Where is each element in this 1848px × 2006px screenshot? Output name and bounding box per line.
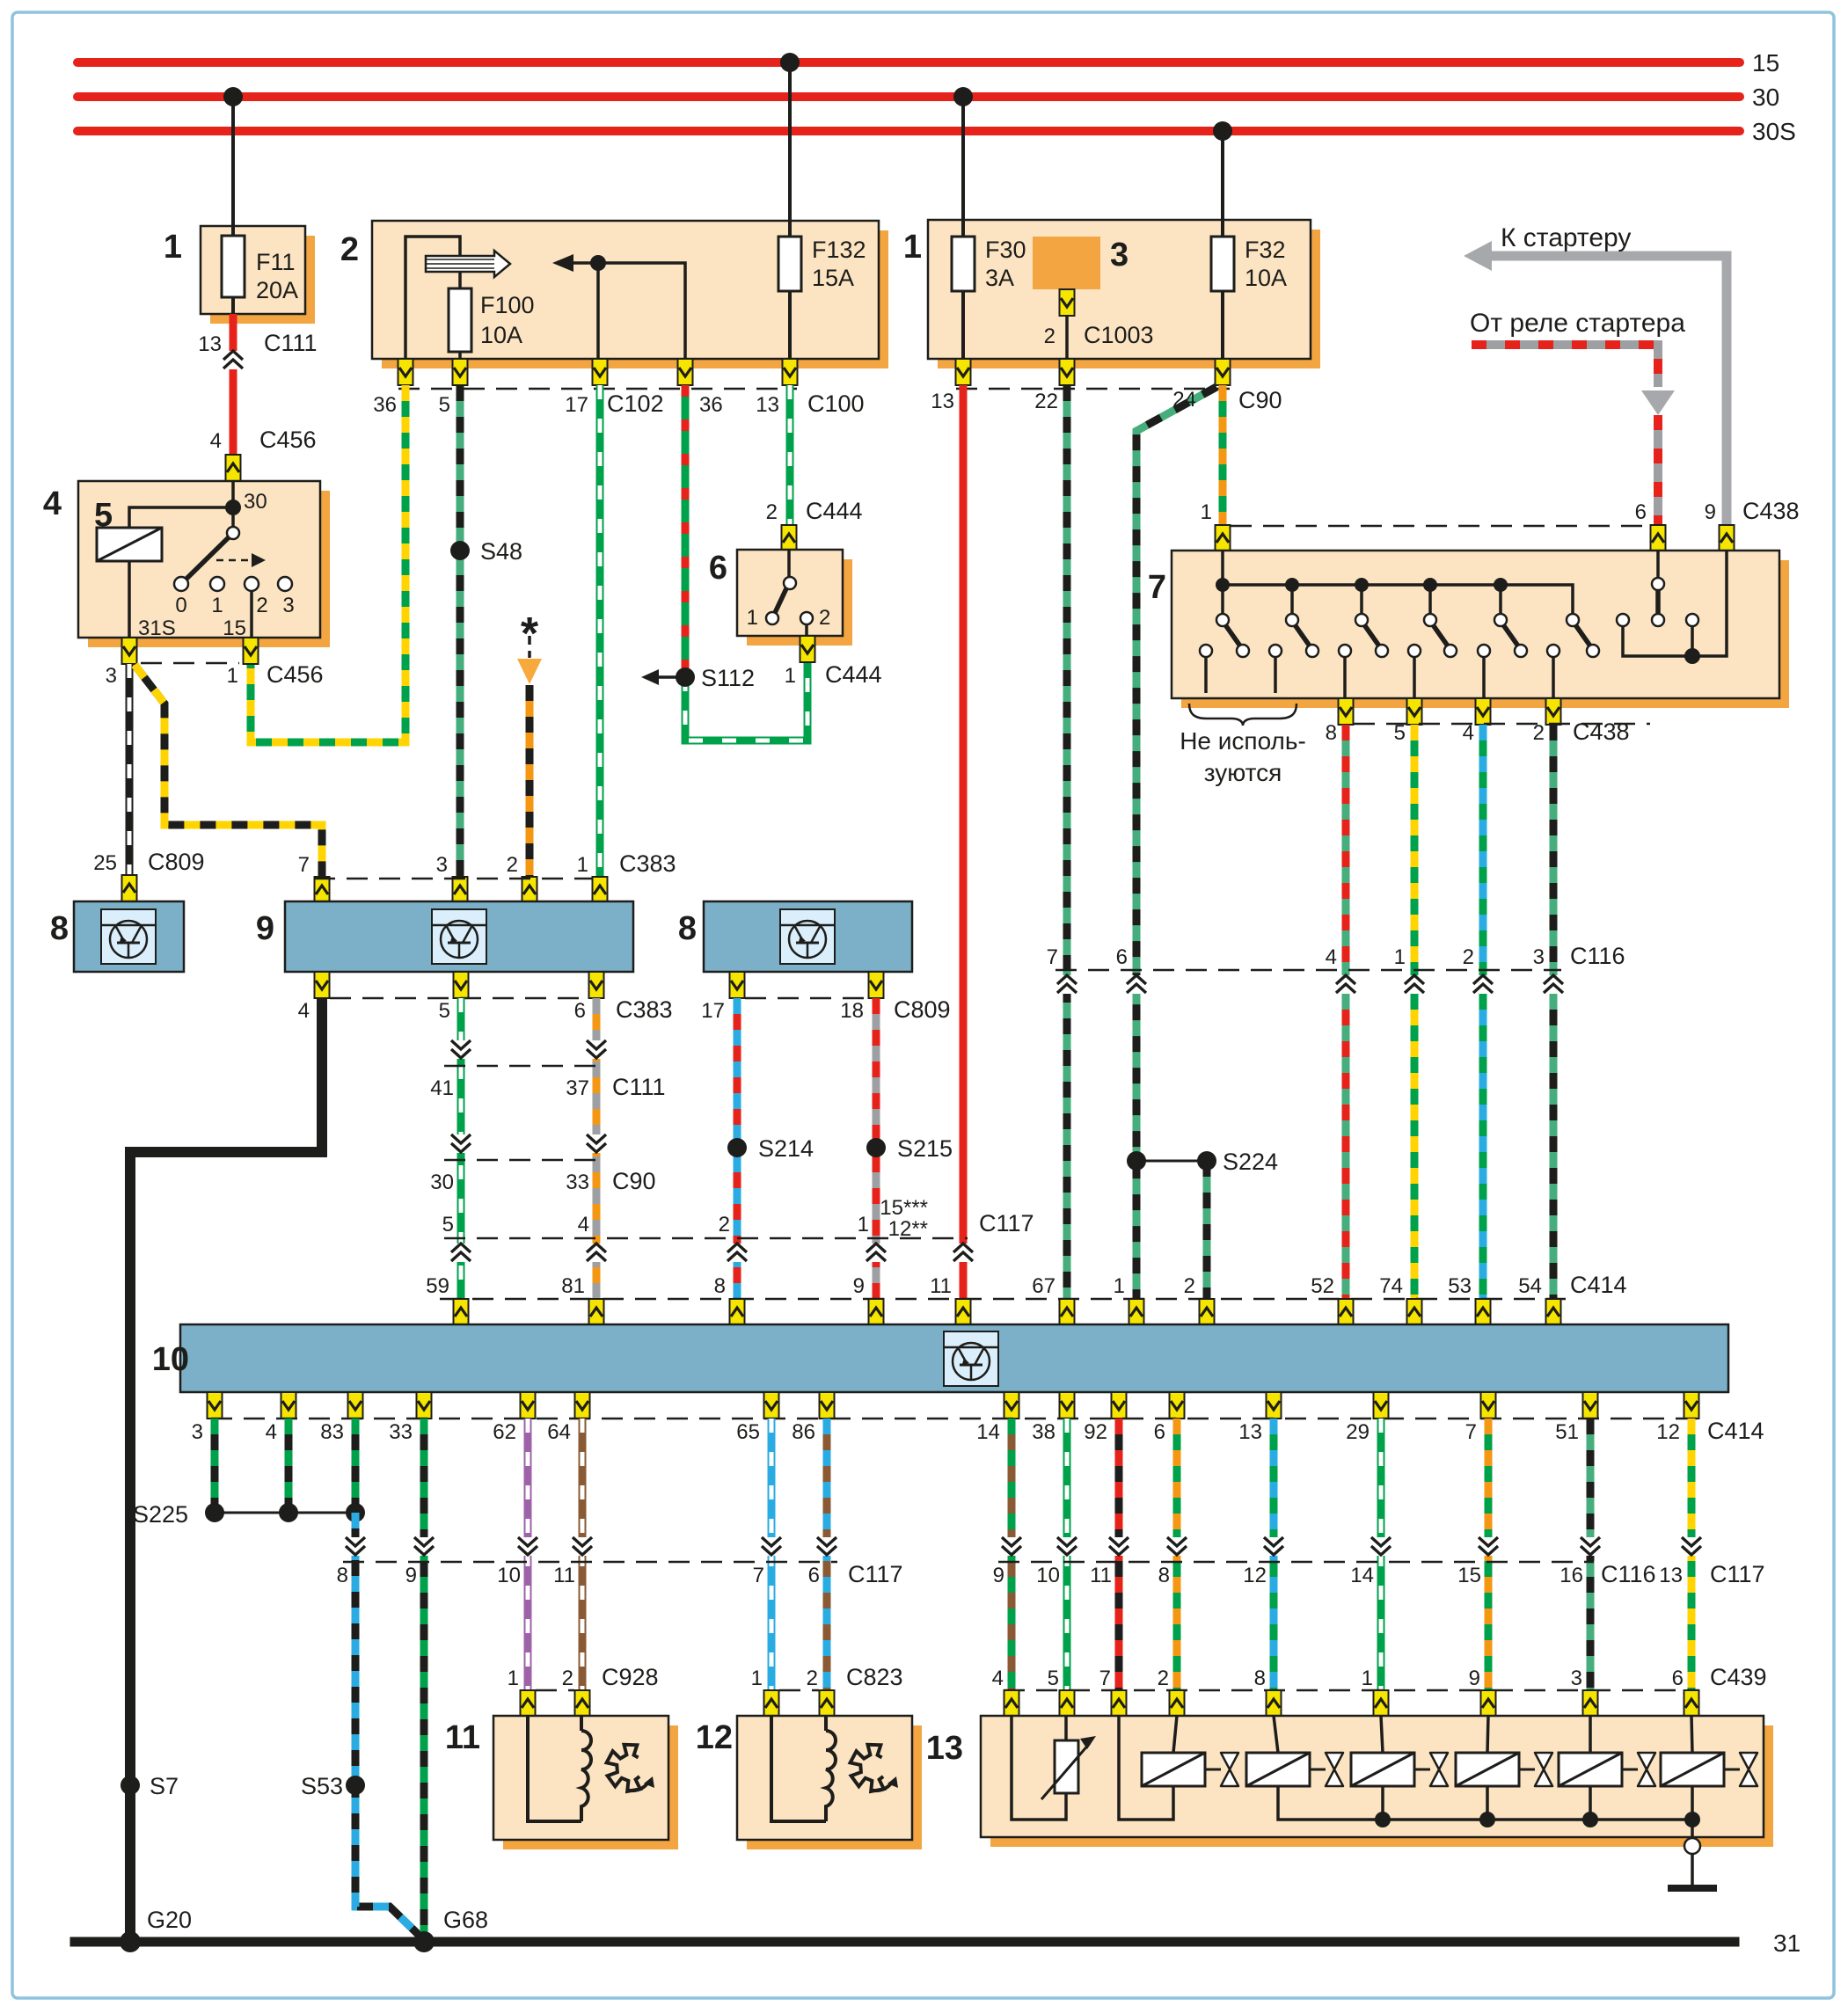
transistor icon box 10	[944, 1331, 998, 1386]
box7 bus junction	[1423, 578, 1437, 592]
box7 switch 6 arm	[1574, 624, 1591, 647]
junction S214	[727, 1138, 747, 1157]
svg-text:8: 8	[1158, 1564, 1170, 1587]
wire C438 pin2 to C414 pin54 (green/black)	[1550, 725, 1558, 1299]
svg-text:62: 62	[493, 1420, 516, 1444]
svg-text:К стартеру: К стартеру	[1501, 223, 1631, 252]
plug arrow symbol in box 2	[426, 251, 510, 277]
bus 30S (red power rail)	[77, 127, 1740, 135]
wire C439 pin7 to valve1 return	[1119, 1716, 1173, 1820]
svg-text:7: 7	[1047, 945, 1058, 969]
svg-text:C444: C444	[806, 498, 863, 524]
svg-text:S214: S214	[758, 1135, 814, 1162]
control unit box 8 (left)	[74, 901, 184, 972]
wire S112 to C444 pin1 (green/white)	[685, 662, 807, 740]
svg-text:18: 18	[840, 999, 864, 1023]
svg-text:13: 13	[931, 390, 954, 413]
connector C1003 pin2	[1060, 289, 1075, 316]
svg-text:52: 52	[1311, 1274, 1334, 1298]
wire to C438 pin6 (grey/red)	[1654, 415, 1662, 525]
connector C414 pin 52	[1339, 1299, 1354, 1325]
svg-text:2: 2	[1533, 721, 1545, 745]
connector C438 pin9	[1720, 525, 1735, 551]
valve line solenoid 1	[1205, 1769, 1221, 1771]
svg-text:4: 4	[266, 1420, 277, 1444]
common return rail box 13	[1278, 1786, 1692, 1820]
transistor icon box 8 right	[780, 909, 835, 964]
connector C809 pin18	[869, 972, 884, 998]
connector line C456 (bottom)	[141, 662, 239, 665]
switch 6 arm	[774, 587, 787, 615]
svg-text:C456: C456	[259, 427, 317, 453]
svg-text:8: 8	[1326, 721, 1337, 745]
connector C438 pin6	[1651, 525, 1666, 551]
wire C809 pin18 to C414 pin9 (grey/red)	[873, 998, 880, 1299]
svg-text:2: 2	[256, 594, 267, 617]
wire C823 pin2 to coil (box12)	[824, 1717, 828, 1731]
connector C414 pin 59	[454, 1299, 469, 1325]
svg-text:17: 17	[565, 393, 588, 417]
svg-text:C383: C383	[616, 996, 673, 1023]
svg-text:3: 3	[1110, 237, 1129, 274]
box7 switch 4 feed	[1428, 585, 1432, 614]
box7 switch 1 arm end	[1237, 645, 1249, 657]
box7 bus junction	[1355, 578, 1369, 592]
box7 switch 2 arm end	[1306, 645, 1318, 657]
svg-text:4: 4	[992, 1667, 1004, 1690]
switch position 2 contact	[245, 577, 259, 591]
junction S7	[121, 1776, 140, 1795]
svg-text:1: 1	[1114, 1274, 1125, 1298]
svg-text:6: 6	[709, 550, 727, 587]
svg-text:3: 3	[282, 594, 294, 617]
wire C90 pin13 to C414 pin11 (red)	[960, 385, 968, 1299]
svg-text:92: 92	[1084, 1420, 1107, 1444]
junction in box 2 (pin17/pin36 branch)	[590, 255, 606, 271]
fuse F132	[778, 237, 801, 291]
connector C414 pin 9	[869, 1299, 884, 1325]
connector C439 pin 8	[1267, 1690, 1282, 1717]
box7 switch 5 output contact	[1478, 645, 1490, 657]
svg-text:C1003: C1003	[1084, 322, 1154, 348]
injector box 12	[737, 1716, 922, 1849]
svg-text:2: 2	[766, 500, 778, 524]
box7 bus junction	[1216, 578, 1230, 592]
wire C414 pin83 to S225 (black/green)	[352, 1419, 360, 1513]
connector line C823	[779, 1689, 819, 1692]
connector C414 pin 12 (bottom)	[1684, 1392, 1699, 1419]
svg-text:3: 3	[106, 664, 117, 688]
wire box2 pin36 to S112 (green/red)	[682, 385, 690, 677]
connector C809 pin25	[122, 875, 137, 901]
junction bus30S/F32 feed	[1213, 121, 1232, 141]
wire C383 pin4 to ground G20 (black)	[130, 998, 322, 1942]
svg-text:2: 2	[1158, 1667, 1169, 1690]
solenoid coil 5	[1559, 1753, 1622, 1786]
connector line C414 (bottom)	[211, 1418, 1699, 1420]
connector C823 pin2	[820, 1690, 835, 1717]
wire C809 pin17 to C414 pin8 (red/blue)	[734, 998, 741, 1299]
wire S224 to C414 pin2 (green/black)	[1203, 1161, 1211, 1299]
svg-text:S53: S53	[301, 1773, 343, 1799]
svg-text:4: 4	[1326, 945, 1337, 969]
box7 switch 1 output stub	[1204, 657, 1208, 693]
svg-text:2: 2	[819, 606, 830, 630]
wire C414 pin51 to C439 pin3 (green/black)	[1587, 1419, 1595, 1690]
crossing C117 at x=838	[727, 1244, 747, 1262]
box7 switch 6 output stub	[1552, 657, 1555, 698]
svg-text:S225: S225	[133, 1501, 188, 1528]
wire C444 pin2 into switch 6	[787, 550, 791, 579]
arrow to starter (grey)	[1464, 241, 1727, 525]
svg-text:11: 11	[930, 1274, 952, 1298]
box7 switch 6 output contact	[1547, 645, 1559, 657]
svg-text:15: 15	[223, 616, 246, 640]
connector C438 pin 5 (bottom)	[1407, 698, 1422, 725]
crossing C111 pin41	[451, 1040, 471, 1059]
box7 switch 3 output contact	[1339, 645, 1351, 657]
svg-text:2: 2	[807, 1667, 818, 1690]
svg-text:8: 8	[714, 1274, 726, 1298]
crossing C117 row2 at x=662	[573, 1537, 592, 1556]
connector C414 pin 67	[1060, 1299, 1075, 1325]
svg-text:4: 4	[1463, 721, 1474, 745]
junction S112	[676, 667, 695, 687]
connector line C102/C100	[398, 388, 797, 390]
fuse F32	[1211, 237, 1234, 291]
wire relay to terminal 30	[129, 507, 233, 528]
wire C414 pin13 to C439 pin8 (green/blue)	[1270, 1419, 1278, 1690]
control unit box 8 (right)	[704, 901, 912, 972]
box7 switch 3 arm end	[1376, 645, 1388, 657]
connector C414 pin 64 (bottom)	[575, 1392, 590, 1419]
svg-text:S48: S48	[480, 538, 522, 565]
connector C414 pin 11	[956, 1299, 971, 1325]
box7 switch 5 output stub	[1482, 657, 1486, 698]
wire relay to 31S terminal	[128, 561, 131, 638]
svg-text:2: 2	[719, 1213, 730, 1236]
switch box 6	[737, 550, 852, 646]
wire C414 pin92 to C439 pin7 (black/red)	[1115, 1419, 1123, 1690]
crossing C117 row2 at x=940	[817, 1537, 836, 1556]
svg-text:51: 51	[1555, 1420, 1579, 1444]
svg-text:8: 8	[50, 910, 69, 947]
internal bus of box 7	[1223, 585, 1573, 614]
wire junction to pin36 internal	[598, 263, 685, 359]
connector C414 pin 54	[1546, 1299, 1561, 1325]
wire C414 pin38 to C439 pin5 (green/white)	[1063, 1419, 1071, 1690]
box7 right switch arm (closed)	[1655, 584, 1661, 620]
svg-text:0: 0	[175, 594, 186, 617]
bus 31 (ground rail)	[75, 1937, 1735, 1947]
valve symbol 4	[1535, 1753, 1552, 1786]
connector C414 pin 62 (bottom)	[521, 1392, 536, 1419]
svg-text:2: 2	[562, 1667, 573, 1690]
wire C438 pin5 to C414 pin74 (green/yellow)	[1411, 725, 1419, 1299]
svg-text:1: 1	[227, 664, 238, 688]
junction S225 dot1	[205, 1503, 224, 1522]
svg-text:C111: C111	[264, 330, 318, 356]
return rail junction	[1582, 1812, 1598, 1827]
box7 switch 2 output stub	[1274, 657, 1277, 693]
junction bus30/F11 feed	[223, 87, 243, 106]
chassis ground symbol	[1668, 1854, 1717, 1888]
splice link S224	[1136, 1160, 1207, 1163]
svg-text:3: 3	[1533, 945, 1545, 969]
connector C414 pin 13 (bottom)	[1267, 1392, 1282, 1419]
connector C823 pin1	[764, 1690, 779, 1717]
svg-text:1: 1	[785, 664, 796, 688]
connector C414 pin 2	[1200, 1299, 1215, 1325]
svg-text:F11: F11	[256, 249, 296, 275]
connector box2 pin 13	[783, 359, 798, 385]
connector C414 pin 4 (bottom)	[281, 1392, 296, 1419]
svg-text:7: 7	[1465, 1420, 1477, 1444]
connector C414 pin 14 (bottom)	[1004, 1392, 1019, 1419]
switch position 1 contact	[210, 577, 224, 591]
connector line C438 (bottom)	[1354, 723, 1650, 726]
svg-text:1: 1	[903, 229, 922, 266]
svg-text:2: 2	[1184, 1274, 1195, 1298]
wire C414 pin7 to C439 pin9 (green/orange)	[1485, 1419, 1493, 1690]
wire C438 pin6 into box7	[1656, 551, 1660, 578]
svg-text:C100: C100	[807, 390, 865, 417]
connector C414 pin 81	[589, 1299, 604, 1325]
connector C439 pin 7	[1112, 1690, 1127, 1717]
svg-text:9: 9	[853, 1274, 865, 1298]
svg-text:12: 12	[1243, 1564, 1267, 1587]
wire C414 pin29 to C439 pin1 (green/white)	[1377, 1419, 1385, 1690]
wire C414 pin12 to C439 pin6 (green/yellow)	[1688, 1419, 1696, 1690]
connector line C439	[1004, 1689, 1699, 1692]
wire to solenoid 3	[1381, 1716, 1383, 1753]
svg-text:C111: C111	[612, 1074, 666, 1100]
connector line C117 (row 1)	[444, 1237, 968, 1240]
box7 switch 4 output contact	[1408, 645, 1421, 657]
crossing C116/C117 row2 at x=1338	[1167, 1537, 1187, 1556]
solenoid coil 6	[1661, 1753, 1724, 1786]
svg-text:30: 30	[430, 1171, 454, 1194]
svg-text:C117: C117	[979, 1210, 1034, 1236]
valve symbol 6	[1740, 1753, 1757, 1786]
svg-text:30: 30	[244, 490, 267, 514]
valve line solenoid 5	[1622, 1769, 1638, 1771]
coil of injector 12	[826, 1731, 836, 1821]
solenoid coil 2	[1246, 1753, 1310, 1786]
control unit box 9	[285, 901, 633, 972]
brace for unused contacts	[1189, 704, 1297, 726]
wire to solenoid 2	[1274, 1716, 1278, 1753]
crossing C117 at x=996	[866, 1244, 886, 1262]
connector C383 pin 6 (bottom)	[589, 972, 604, 998]
svg-text:C90: C90	[612, 1168, 656, 1194]
box7 right contact A	[1617, 614, 1629, 626]
box7 switch 3 feed	[1360, 585, 1363, 614]
svg-text:64: 64	[547, 1420, 571, 1444]
transistor icon box 8 left	[101, 909, 156, 964]
svg-text:67: 67	[1032, 1274, 1055, 1298]
arrowhead from starter relay	[1641, 390, 1675, 415]
switch position 3 contact	[278, 577, 292, 591]
wire C1003 to box edge	[1065, 316, 1069, 359]
valve symbol 3	[1430, 1753, 1448, 1786]
svg-text:3: 3	[192, 1420, 203, 1444]
connector line C90 (crossing)	[444, 1159, 607, 1162]
svg-text:C116: C116	[1570, 943, 1625, 969]
svg-text:33: 33	[389, 1420, 413, 1444]
box7 bus junction	[1494, 578, 1508, 592]
connector line C414 (top)	[440, 1298, 1566, 1301]
svg-text:4: 4	[43, 485, 62, 522]
box7 switch 4 output stub	[1413, 657, 1416, 698]
junction S48	[450, 541, 470, 560]
crossing C111 pin37	[587, 1040, 606, 1059]
svg-text:G68: G68	[443, 1907, 488, 1933]
connector C456 pin3	[122, 638, 137, 664]
svg-text:9: 9	[1705, 500, 1716, 524]
svg-text:C117: C117	[848, 1561, 903, 1587]
box7 switch 3 pivot	[1355, 614, 1368, 626]
svg-text:1: 1	[577, 853, 588, 877]
svg-text:12: 12	[1656, 1420, 1680, 1444]
wire C928 pin1 to coil (box11)	[528, 1717, 581, 1821]
ignition switch box 4	[78, 481, 330, 647]
box7 switch 2 pivot	[1286, 614, 1298, 626]
connector line C383 (top)	[314, 878, 592, 880]
ground connector contact	[1684, 1838, 1700, 1854]
svg-text:S215: S215	[897, 1135, 953, 1162]
continuation arrow at S112	[641, 669, 680, 685]
wire from starter relay (grey/red)	[1472, 345, 1658, 387]
connector crossing C116 at x=1292	[1127, 975, 1146, 994]
connector line C90	[956, 388, 1230, 390]
box7 switch 5 arm	[1502, 624, 1519, 647]
svg-text:2: 2	[1463, 945, 1474, 969]
rail to ground stub	[1691, 1820, 1694, 1837]
connector line C116 (row 2)	[998, 1561, 1594, 1564]
svg-text:C809: C809	[148, 849, 205, 875]
svg-text:10A: 10A	[480, 322, 522, 348]
solenoid coil 1	[1142, 1753, 1205, 1786]
svg-text:7: 7	[1099, 1667, 1111, 1690]
gear icon box 12	[851, 1745, 898, 1791]
connector C414 pin 86 (bottom)	[820, 1392, 835, 1419]
wire F11 to C456 pin4 (red)	[230, 314, 237, 456]
svg-text:C809: C809	[894, 996, 951, 1023]
svg-text:9: 9	[993, 1564, 1004, 1587]
solenoid coil 3	[1351, 1753, 1414, 1786]
wire C439 pin4 to resistor	[1012, 1716, 1066, 1820]
connector C90 pin 13	[956, 359, 971, 385]
svg-text:11: 11	[445, 1719, 480, 1756]
wire C90 pin22 to C414 pin67 (green/black)	[1063, 385, 1071, 1299]
svg-text:7: 7	[1148, 569, 1166, 606]
connector C456 pin1	[244, 638, 259, 664]
junction S215	[866, 1138, 886, 1157]
wire C414 pin86 to C823 pin2 (brown/blue)	[823, 1419, 831, 1690]
svg-text:9: 9	[256, 910, 274, 947]
wire contact2 to C444 pin1	[805, 624, 808, 636]
box7 right switch top contact	[1652, 578, 1664, 590]
connector crossing C111 pin13	[223, 351, 243, 369]
svg-text:4: 4	[578, 1213, 589, 1236]
wire through fuse F11	[231, 226, 235, 314]
svg-text:15: 15	[1457, 1564, 1481, 1587]
svg-text:F30: F30	[985, 237, 1026, 263]
svg-text:59: 59	[426, 1274, 449, 1298]
svg-text:C438: C438	[1573, 719, 1630, 745]
wire bus15 to box2 F132	[788, 62, 792, 221]
connector C414 pin 7 (bottom)	[1481, 1392, 1496, 1419]
svg-text:1: 1	[211, 594, 223, 617]
crossing C117 row2 at x=877	[762, 1537, 781, 1556]
ground junction G20	[120, 1931, 141, 1952]
svg-text:10: 10	[152, 1341, 189, 1378]
connector crossing C116 at x=1766	[1544, 975, 1563, 994]
connector box2 pin 36	[678, 359, 693, 385]
solenoid return drop	[1589, 1786, 1592, 1820]
svg-text:29: 29	[1346, 1420, 1370, 1444]
relay/fuse box 2	[372, 221, 888, 368]
svg-text:1: 1	[508, 1667, 519, 1690]
svg-text:F100: F100	[480, 292, 535, 318]
svg-text:14: 14	[1350, 1564, 1374, 1587]
wire C414 pin3 to S225 (black/green)	[211, 1419, 219, 1513]
svg-text:6: 6	[1154, 1420, 1165, 1444]
terminal 30 junction	[225, 500, 241, 515]
svg-text:От реле стартера: От реле стартера	[1470, 309, 1685, 338]
crossing C116/C117 row2 at x=1692	[1479, 1537, 1498, 1556]
connector C444 pin1	[800, 636, 815, 662]
svg-text:3: 3	[1571, 1667, 1582, 1690]
wire C414 pin6 to C439 pin2 (green/orange)	[1173, 1419, 1181, 1690]
box7 switch 3 output stub	[1343, 657, 1347, 698]
svg-text:7: 7	[298, 853, 310, 877]
connector crossing C116 at x=1530	[1336, 975, 1355, 994]
svg-text:S112: S112	[701, 665, 755, 691]
svg-text:54: 54	[1518, 1274, 1542, 1298]
wire C414 pin4 to S225 (black/green)	[285, 1419, 293, 1513]
connector line C111 (crossing)	[444, 1065, 607, 1068]
bus 30 (red power rail)	[77, 92, 1740, 101]
solenoid return drop	[1381, 1786, 1384, 1820]
wire C90 pin24 to C438 pin1 (green/orange)	[1219, 385, 1227, 525]
svg-text:1: 1	[1201, 500, 1212, 524]
valve symbol 2	[1326, 1753, 1343, 1786]
wire junction to pin17 internal	[596, 263, 600, 359]
junction S225 dot2	[279, 1503, 298, 1522]
svg-text:30: 30	[1752, 84, 1779, 111]
box7 switch 1 output contact	[1200, 645, 1212, 657]
box7 switch 2 output contact	[1269, 645, 1282, 657]
box7 right contact B	[1686, 614, 1698, 626]
connector C414 pin 33 (bottom)	[417, 1392, 432, 1419]
connector line C117 (row 2)	[343, 1561, 837, 1564]
crossing C117 at x=524	[451, 1244, 471, 1262]
box7 switch 3 arm	[1363, 624, 1380, 647]
svg-text:C90: C90	[1238, 387, 1282, 413]
connector C809 pin17	[730, 972, 745, 998]
wire S225 to G68 (black/blue)	[355, 1513, 421, 1937]
wire box2 pin36 internal	[405, 237, 460, 359]
svg-text:22: 22	[1034, 390, 1058, 413]
connector box2 pin 36	[398, 359, 413, 385]
svg-text:C823: C823	[846, 1664, 903, 1690]
connector C414 pin 1	[1129, 1299, 1144, 1325]
connector C383 pin 2 (top)	[522, 877, 537, 903]
svg-text:4: 4	[210, 429, 222, 453]
switch motion arrow (dashed)	[216, 553, 266, 567]
